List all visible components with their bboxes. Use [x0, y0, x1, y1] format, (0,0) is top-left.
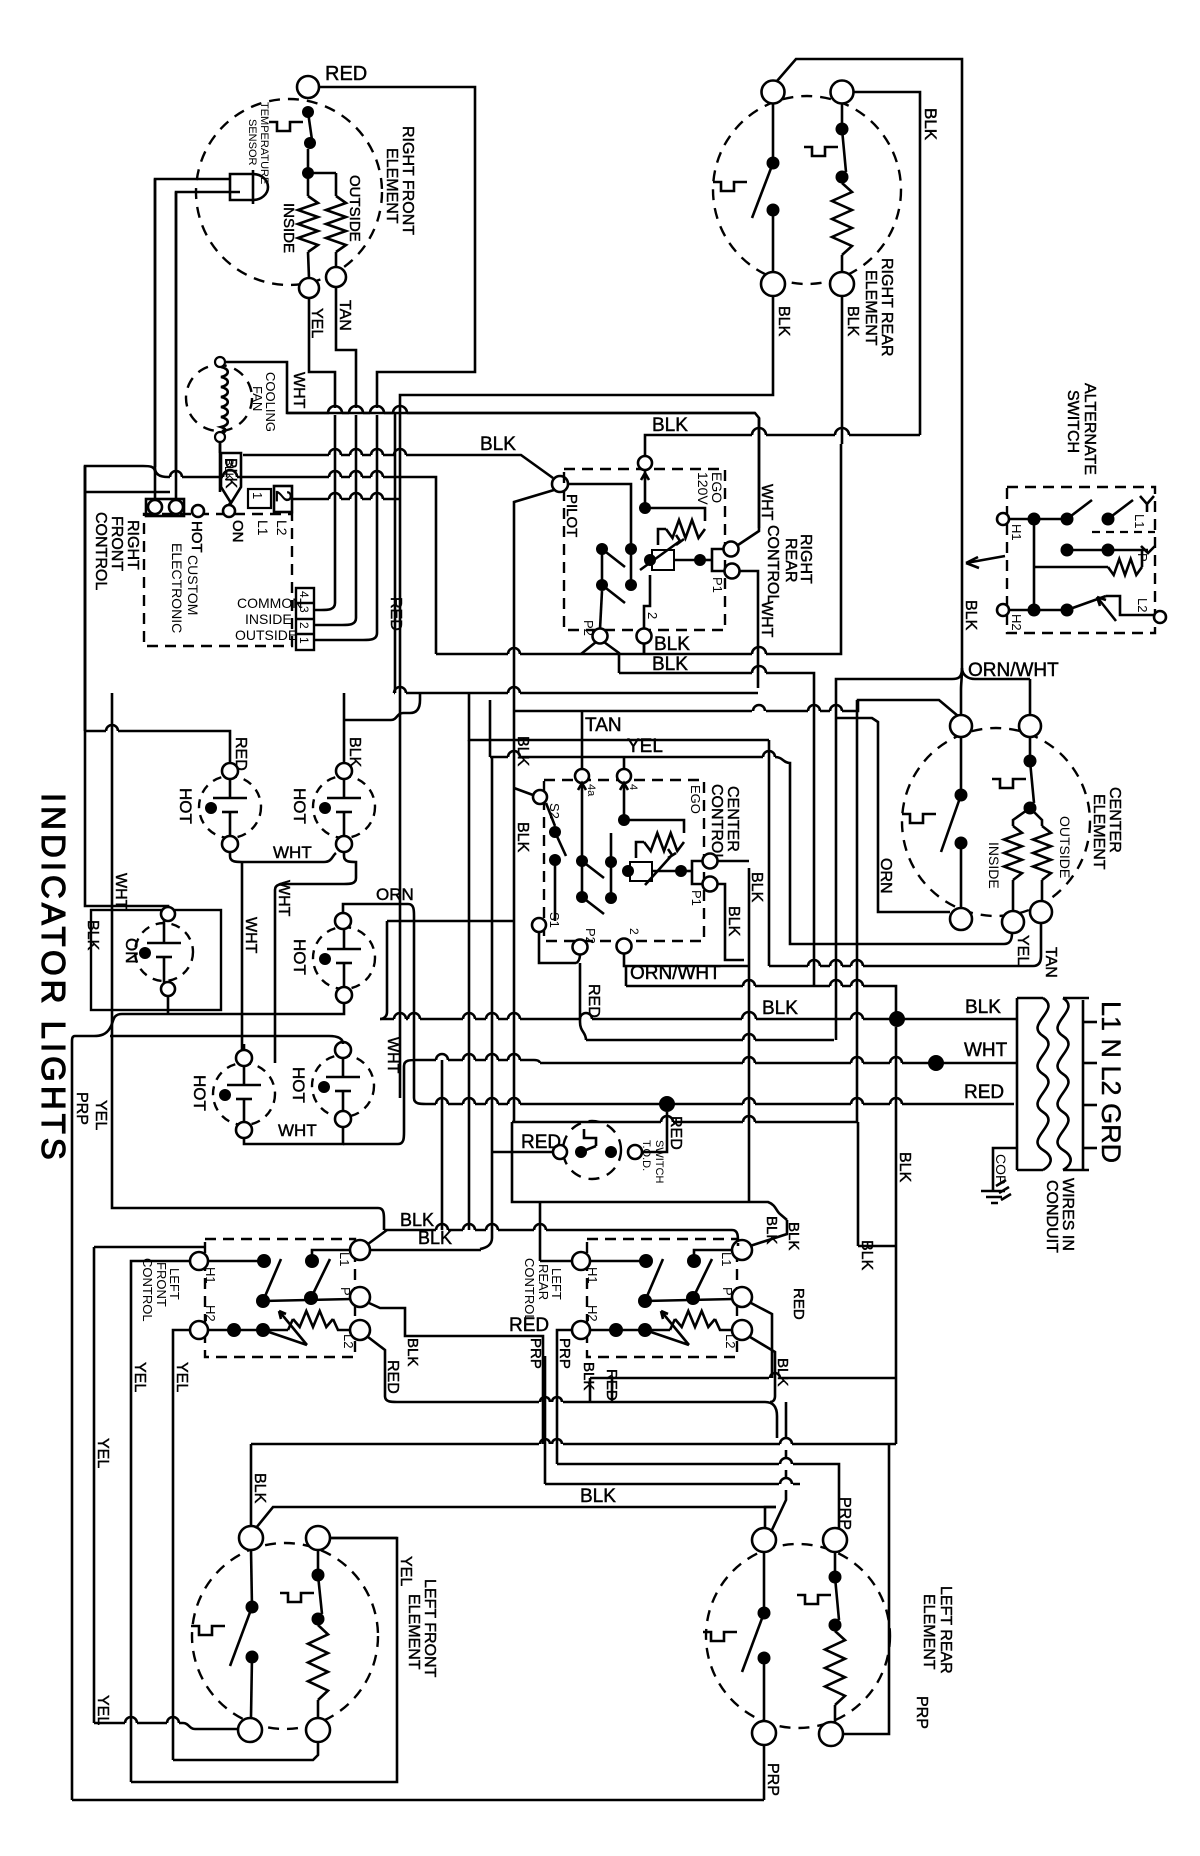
alternate switch dashed box [1007, 487, 1155, 633]
alt switch L1 contact [1067, 500, 1092, 519]
wire BLK to lfe top-left [250, 1444, 253, 1526]
tod switch step [584, 1129, 596, 1146]
center element top-right terminal [1019, 715, 1041, 737]
lfe right branch [312, 1569, 325, 1582]
wire YEL down [309, 298, 335, 408]
wire y1230 BLK [384, 1224, 738, 1242]
svg-text:ALTERNATE: ALTERNATE [1081, 383, 1098, 475]
wire TAN down [336, 287, 356, 408]
hot light 3 [313, 927, 375, 989]
wire orn/wht down to center element [961, 668, 962, 715]
svg-text:RED: RED [232, 737, 249, 771]
hot light 5 [312, 1055, 374, 1117]
svg-text:H2: H2 [1009, 614, 1024, 631]
svg-text:ELEMENT: ELEMENT [1090, 794, 1107, 870]
wire 4a up [581, 711, 584, 769]
svg-text:HOT: HOT [290, 788, 309, 824]
wire yel x94 bottom-left [94, 1247, 238, 1729]
EGO P1 terminals [724, 542, 739, 557]
svg-text:LEFT REAR: LEFT REAR [937, 1586, 954, 1674]
center element TAN terminal [1030, 901, 1052, 923]
S1 terminal [532, 918, 546, 932]
lfc L1 terminal [350, 1240, 370, 1260]
center control terminal 4 [617, 769, 631, 783]
wire sensor left top [155, 179, 230, 467]
terminal YEL bottom [299, 278, 319, 298]
center element right branch [1024, 755, 1037, 768]
svg-text:CUSTOM: CUSTOM [185, 555, 201, 615]
svg-text:FRONT: FRONT [154, 1262, 169, 1307]
EGO internal top [644, 470, 647, 508]
svg-text:WHT: WHT [242, 917, 259, 954]
wire fan bottom BLK [219, 442, 222, 492]
svg-text:RED: RED [603, 1369, 620, 1401]
wire x442 down [441, 1060, 444, 1230]
wire x814 to y986 [626, 980, 896, 1019]
svg-text:BLK: BLK [480, 434, 516, 455]
svg-text:WHT: WHT [275, 880, 292, 917]
wire y1484 line [545, 1478, 800, 1484]
wire YEL y757 [490, 751, 1012, 944]
wire y1378 BLK east [590, 1373, 896, 1378]
svg-text:YEL: YEL [308, 308, 325, 338]
resistor OUTSIDE [326, 196, 346, 252]
EGO terminal 4 [638, 456, 652, 470]
svg-text:HOT: HOT [188, 521, 205, 553]
wire y466 left terminal to x85 [85, 466, 155, 731]
svg-text:ELECTRONIC: ELECTRONIC [169, 543, 185, 633]
svg-text:L2: L2 [723, 1334, 738, 1348]
lfc L2 terminal [350, 1320, 370, 1340]
center element left switch [955, 789, 968, 802]
svg-text:REAR: REAR [536, 1264, 551, 1300]
wire x85 BLK down to ON light [85, 466, 168, 908]
svg-text:120V: 120V [695, 472, 711, 505]
wire tod left RED [492, 1151, 553, 1154]
terminal right rear bottom-left [761, 272, 785, 296]
svg-text:FAN: FAN [250, 386, 265, 411]
lrc internals [590, 1260, 646, 1263]
svg-text:BLK: BLK [514, 822, 531, 853]
svg-text:WHT: WHT [384, 1037, 401, 1074]
resistor INSIDE [298, 196, 318, 252]
svg-text:WHT: WHT [278, 1121, 317, 1140]
alt switch P row [1061, 544, 1074, 557]
svg-text:BLK: BLK [418, 1228, 452, 1248]
svg-text:WHT: WHT [758, 484, 775, 521]
svg-text:SWITCH: SWITCH [1064, 390, 1081, 453]
wire bus vertical x377 [376, 415, 379, 477]
svg-text:WIRES IN: WIRES IN [1059, 1178, 1076, 1251]
wire x769 TAN return [769, 740, 1041, 966]
svg-text:RED: RED [790, 1288, 807, 1320]
EGO pot symbol [640, 535, 684, 570]
EGO pilot switch contacts [596, 543, 608, 555]
svg-text:BLK: BLK [785, 1222, 802, 1250]
fan coil [221, 367, 228, 433]
svg-text:RED: RED [964, 1082, 1004, 1103]
wire ORN/WHT right bus [961, 430, 964, 668]
wire lre bottom-right east PRP [843, 1445, 889, 1734]
right rear element dashed circle [713, 96, 901, 284]
svg-text:1: 1 [250, 492, 265, 499]
wire x469 down [468, 740, 471, 1230]
svg-text:YEL: YEL [94, 1438, 111, 1468]
center element top-left terminal [950, 715, 972, 737]
wire x540 H1 up [539, 1202, 542, 1261]
svg-text:ON: ON [122, 938, 141, 964]
svg-text:OUTSIDE: OUTSIDE [235, 627, 297, 643]
right front control dashed box [144, 514, 292, 646]
EGO pot row [644, 554, 656, 566]
wire light3 bottom y1014 [72, 1003, 344, 1042]
ground symbol [981, 1180, 1011, 1203]
wire y1060 WHT east [416, 1054, 540, 1063]
alt switch pointer arrow [966, 556, 1005, 568]
lre bottom terminals [752, 1721, 776, 1745]
svg-text:P2: P2 [581, 620, 596, 636]
wire top-right terminal to x920 [853, 92, 920, 435]
svg-text:L1: L1 [719, 1252, 734, 1266]
center switch contacts [576, 855, 588, 867]
center pot symbol [645, 849, 676, 885]
svg-text:BLK: BLK [404, 1338, 421, 1366]
terminal RED top [297, 76, 319, 98]
BLK wire flag [221, 453, 241, 503]
wire y693 WHT [394, 687, 758, 693]
center resistor [644, 833, 684, 851]
svg-text:HOT: HOT [289, 1067, 308, 1103]
svg-text:L1 N L2 GRD: L1 N L2 GRD [1096, 1001, 1126, 1163]
svg-text:P1: P1 [689, 890, 704, 906]
wire bus vertical x335 YEL [334, 415, 337, 477]
right rear control dashed box [564, 469, 725, 630]
wire x786 strand [771, 1402, 786, 1532]
svg-text:YEL: YEL [173, 1362, 190, 1392]
wire lfc H2 YEL west [173, 1330, 190, 1760]
wire S1 down and east [539, 932, 576, 963]
svg-text:REAR: REAR [782, 538, 799, 582]
left rear element dashed circle [706, 1544, 890, 1728]
wire y1444 BLK long [251, 1438, 896, 1444]
svg-text:CONTROL: CONTROL [708, 784, 725, 862]
svg-text:TEMPERATURE: TEMPERATURE [258, 102, 270, 184]
wire top-left terminal diagonal to top bus [777, 59, 962, 430]
svg-text:PRP: PRP [556, 1338, 573, 1369]
left front element dashed circle [192, 1543, 378, 1729]
hot light 4 [213, 1063, 275, 1125]
wire y1246 BLK east [858, 1245, 896, 1248]
terminal right rear top-left [762, 81, 785, 104]
wire WHT between lights [230, 852, 336, 862]
wire tod right to RED bus [642, 1112, 667, 1152]
wire P1 upper to WHT vertical [738, 418, 759, 545]
alt switch internal wires [1009, 518, 1067, 521]
svg-text:BLK: BLK [580, 1486, 616, 1507]
on light box [91, 910, 221, 1010]
wire lre bottom-left PRP down [763, 1745, 766, 1800]
svg-text:CONTROL: CONTROL [140, 1258, 155, 1322]
svg-text:L1: L1 [1132, 514, 1147, 528]
wire y654 BLK [436, 648, 581, 654]
wire y1507 into lre [765, 1507, 776, 1528]
svg-text:BLK: BLK [775, 306, 792, 337]
svg-text:2: 2 [645, 612, 660, 619]
wire P1 upper east [718, 860, 749, 863]
svg-text:WHT: WHT [964, 1040, 1008, 1061]
wire lfe top-right east [330, 1537, 397, 1540]
svg-text:COMMON: COMMON [237, 595, 302, 611]
wire x72 PRP down [71, 1042, 74, 1800]
svg-text:OUTSIDE: OUTSIDE [1057, 816, 1073, 878]
on light [135, 923, 193, 981]
lre resistor [825, 1631, 845, 1705]
ground wire COP [993, 1148, 1017, 1190]
svg-text:BLK: BLK [725, 906, 742, 937]
conduit wavy lines [1038, 998, 1051, 1170]
lfc P terminal [350, 1287, 370, 1307]
wire x857 vertical [856, 700, 859, 1122]
svg-text:ELEMENT: ELEMENT [862, 270, 879, 346]
lre top-left terminal [752, 1528, 776, 1552]
fan terminal bottom [215, 432, 225, 442]
wire switch to resistors [307, 149, 310, 196]
center control dashed box [544, 780, 704, 941]
lfe resistor [308, 1625, 328, 1700]
svg-text:BLK: BLK [762, 998, 798, 1019]
hot light 1 [199, 776, 261, 838]
svg-text:TAN: TAN [336, 300, 353, 331]
hot light 2 [313, 776, 375, 838]
svg-text:RIGHT REAR: RIGHT REAR [878, 258, 895, 356]
svg-text:BLK: BLK [858, 1240, 875, 1271]
connector COMMON INSIDE OUTSIDE [296, 588, 314, 650]
wire risers y1378 y1402 [589, 1378, 592, 1402]
svg-text:ORN: ORN [877, 858, 894, 894]
svg-text:PRP: PRP [73, 1092, 90, 1125]
svg-text:OUTSIDE: OUTSIDE [346, 175, 363, 242]
wire orn/wht to west [836, 668, 962, 718]
wire lrc L2 east down [750, 1337, 775, 1402]
S2 terminal [533, 790, 547, 804]
svg-text:RIGHT FRONT: RIGHT FRONT [399, 126, 416, 235]
svg-text:BLK: BLK [84, 920, 101, 951]
wire light1 top [85, 466, 230, 763]
left front control dashed box [205, 1239, 355, 1357]
wire sensor left bottom [176, 192, 240, 472]
wire y1464 PRP [557, 1458, 839, 1528]
wire RED bus y1104 [426, 1098, 1014, 1104]
lrc L1 terminal [732, 1240, 752, 1260]
svg-text:BLK: BLK [921, 108, 940, 141]
switch contact dots right front element [302, 106, 314, 118]
svg-text:BLK: BLK [580, 1362, 597, 1390]
lfc H1 terminal [190, 1252, 208, 1270]
wire y740 west part [469, 694, 769, 740]
svg-text:SWITCH: SWITCH [653, 1140, 665, 1183]
lrc resistor [670, 1319, 675, 1330]
svg-text:S1: S1 [547, 912, 562, 928]
wire hops on y413 bus [287, 406, 755, 413]
svg-text:RED: RED [667, 1116, 684, 1150]
wire bus vertical x356 TAN [355, 415, 358, 477]
svg-text:TAN: TAN [1042, 947, 1059, 978]
svg-text:L1: L1 [337, 1252, 352, 1266]
wire lrc L1 diagonal [737, 1243, 740, 1246]
svg-text:BLK: BLK [748, 872, 765, 903]
wire y1036 to lights 4 5 [110, 1036, 343, 1050]
lrc H1 terminal [572, 1252, 590, 1270]
EGO terminal 2 [637, 629, 652, 644]
svg-text:4a: 4a [585, 784, 597, 797]
center P2 terminal [573, 940, 588, 955]
svg-text:ON: ON [229, 520, 246, 543]
svg-text:ELEMENT: ELEMENT [920, 1594, 937, 1670]
lrc H2 terminal [572, 1321, 590, 1339]
svg-text:WHT: WHT [273, 843, 312, 862]
wire y1202 to LRC L1 [750, 1220, 787, 1246]
wire terminal2 bottom center [617, 939, 632, 954]
svg-text:YEL: YEL [131, 1362, 148, 1392]
wire y673 BLK P2 [619, 666, 814, 980]
wire lfc P east RED [369, 1303, 543, 1444]
fan terminal top [215, 357, 225, 367]
wire y499 RED from block 2 [292, 493, 400, 499]
terminal HOT small [192, 505, 204, 517]
wire y1247 west segment [94, 1246, 205, 1249]
svg-text:INDICATOR LIGHTS: INDICATOR LIGHTS [35, 793, 72, 1164]
wire PRP bottom bus [72, 1799, 764, 1802]
conduit block [1017, 998, 1089, 1170]
svg-text:BLK: BLK [774, 1358, 791, 1386]
wire pilot to EGO contacts [568, 484, 631, 522]
svg-text:1: 1 [297, 637, 311, 644]
center element resistors [1013, 808, 1030, 826]
wire fan top WHT [225, 362, 759, 528]
lrc L2 terminal [732, 1320, 752, 1340]
wire S2 to BLK vertical [514, 788, 533, 795]
svg-text:2: 2 [627, 928, 641, 935]
svg-text:BLK: BLK [251, 1473, 268, 1504]
wire pilot diagonal down [514, 490, 554, 1122]
wire bottom-left to west bus [400, 296, 773, 1098]
svg-text:PILOT: PILOT [563, 494, 580, 537]
wire lfc L2 RED down [368, 1337, 777, 1438]
svg-text:PRP: PRP [764, 1763, 781, 1796]
svg-text:4: 4 [627, 784, 639, 790]
lrc variable arrow [645, 1311, 689, 1345]
svg-text:BLK: BLK [652, 415, 688, 436]
svg-text:CONTROL: CONTROL [522, 1258, 537, 1322]
svg-text:H2: H2 [203, 1305, 218, 1322]
wire WHT bus y1063 [540, 1057, 1017, 1063]
wire x492 down to TOD and L1 east [480, 700, 492, 1249]
svg-text:YEL: YEL [397, 1556, 414, 1586]
wire BLK x896 down [895, 1027, 898, 1444]
wire lrc H1 west [540, 1260, 572, 1263]
svg-text:BLK: BLK [763, 1216, 780, 1244]
wire top-right terminal up to y679 [1029, 679, 1032, 715]
alt switch H1 terminal [997, 513, 1009, 525]
temperature sensor symbol [230, 170, 268, 204]
right rear element left switch [767, 157, 780, 170]
alt switch internal dashed divider [1092, 531, 1155, 533]
terminal ON small [223, 505, 235, 517]
right front element dashed circle [196, 99, 382, 285]
svg-text:BLK: BLK [965, 997, 1001, 1018]
svg-text:INSIDE: INSIDE [986, 842, 1002, 889]
S2 internal dots [549, 826, 561, 838]
svg-text:CONTROL: CONTROL [764, 525, 781, 603]
conduit stubs [1083, 1021, 1097, 1024]
svg-text:CONDUIT: CONDUIT [1043, 1180, 1060, 1253]
svg-text:T.O.D.: T.O.D. [640, 1140, 652, 1171]
tod terminals [553, 1145, 567, 1159]
cooling fan dashed circle [186, 365, 252, 431]
svg-text:INSIDE: INSIDE [245, 611, 292, 627]
wire lfc L1 diagonal BLK [368, 1230, 387, 1244]
svg-text:RIGHT: RIGHT [124, 520, 141, 570]
svg-text:COP: COP [993, 1154, 1009, 1184]
svg-text:H1: H1 [203, 1267, 218, 1284]
svg-text:RED: RED [325, 63, 367, 85]
wire sensor bottom to terminal [175, 192, 178, 500]
wire y1250 L1 east [370, 1249, 481, 1252]
svg-text:H1: H1 [585, 1267, 600, 1284]
svg-text:WHT: WHT [112, 873, 129, 910]
terminal right rear top-right [831, 81, 854, 104]
svg-text:ORN/WHT: ORN/WHT [968, 660, 1059, 681]
wire WHT down x242 [241, 862, 244, 1063]
svg-text:BLK: BLK [400, 1210, 434, 1230]
svg-text:YEL: YEL [92, 1100, 109, 1130]
tod switch dashed circle [563, 1121, 621, 1179]
svg-text:L2: L2 [341, 1334, 356, 1348]
svg-text:CENTER: CENTER [724, 786, 741, 852]
wire P1 lower east down [718, 884, 744, 960]
wire RED top to outer box right [319, 87, 475, 408]
tod enclosure box [512, 1116, 858, 1246]
wire y1040 RED east [586, 1034, 834, 1040]
left rear control dashed box [587, 1239, 737, 1357]
svg-text:TAN: TAN [585, 715, 622, 736]
wire BLK bus y1019 [380, 1012, 1017, 1019]
svg-text:HOT: HOT [190, 1075, 209, 1111]
wire fan BLK to flag terminal [219, 442, 222, 453]
svg-text:ORN/WHT: ORN/WHT [630, 963, 721, 984]
svg-text:WHT: WHT [758, 601, 775, 638]
lrc P terminal [732, 1287, 752, 1307]
wire ON bottom stub [167, 996, 170, 1014]
lre right branch [829, 1571, 842, 1584]
svg-text:ELEMENT: ELEMENT [405, 1594, 422, 1670]
alt switch H2 terminal [997, 604, 1009, 616]
svg-text:CENTER: CENTER [1106, 787, 1123, 853]
wire light2 bottom to x275 [275, 852, 356, 1063]
svg-text:INSIDE: INSIDE [280, 203, 297, 253]
input terminal block [146, 499, 184, 516]
svg-text:L2: L2 [274, 520, 290, 536]
wire P1 lower east then down [740, 571, 758, 688]
wires buses into connector [314, 477, 335, 610]
pilot terminal [552, 476, 568, 492]
lfe left switch [246, 1601, 259, 1614]
wire y492 to x85 [85, 491, 170, 494]
wire YEL x131 to top right terminal [131, 1538, 397, 1782]
svg-text:P1: P1 [710, 577, 725, 593]
center control terminal 4a [575, 769, 589, 783]
wire light2 top [344, 693, 420, 763]
